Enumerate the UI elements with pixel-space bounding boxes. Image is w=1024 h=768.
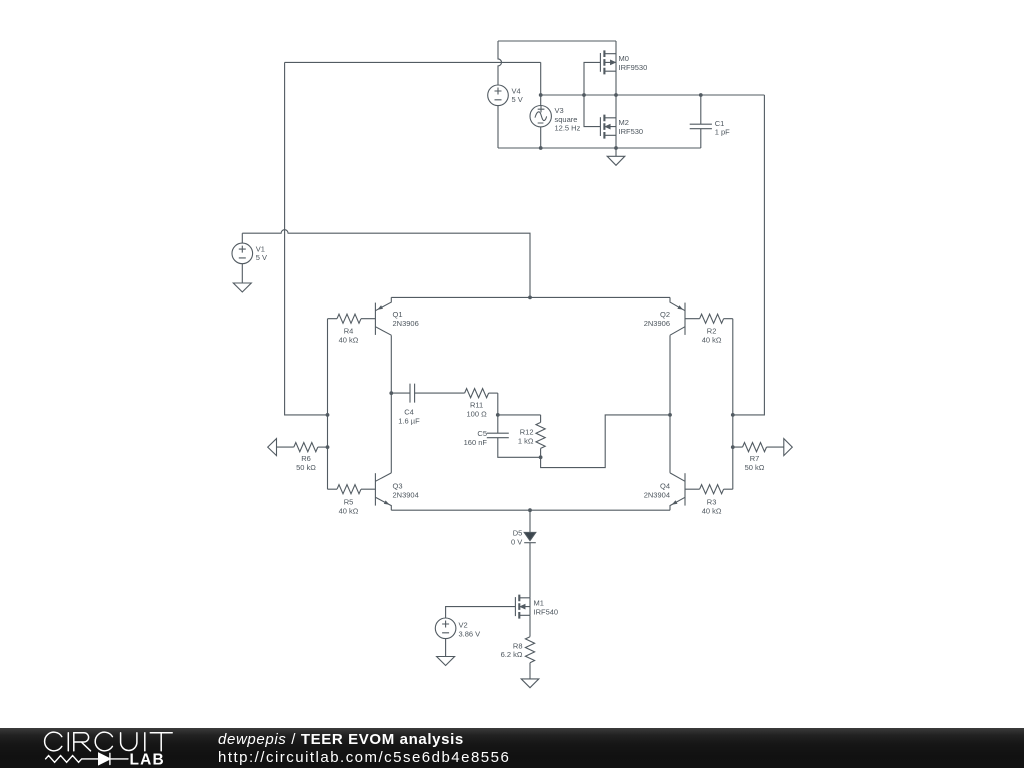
capacitor C1 (690, 95, 712, 148)
svg-text:R4: R4 (344, 327, 354, 336)
resistor R6 (294, 443, 328, 452)
svg-text:M1: M1 (534, 599, 544, 608)
svg-text:160 nF: 160 nF (464, 438, 488, 447)
svg-text:R3: R3 (707, 498, 717, 507)
capacitor C5 (487, 415, 541, 457)
logo resistor-diode strip (46, 753, 128, 764)
capacitor C4 (391, 384, 464, 403)
svg-text:50 kΩ: 50 kΩ (745, 463, 765, 472)
ground under V2 (437, 639, 455, 666)
svg-text:2N3906: 2N3906 (644, 319, 670, 328)
voltage source V4 (488, 85, 509, 106)
svg-text:R7: R7 (750, 454, 760, 463)
wire cross-couple to right collectors (541, 415, 670, 468)
wire V1 to emitter rail with hop (242, 230, 530, 298)
wire bottom emitter rail (391, 509, 670, 511)
transistor Q2 2N3906 (670, 297, 685, 335)
logo CIRCUIT (45, 732, 173, 751)
voltage source V2 (435, 618, 456, 639)
svg-text:1.6 µF: 1.6 µF (398, 416, 420, 425)
wire middle rail (541, 94, 765, 96)
resistor R12 (536, 415, 545, 457)
svg-text:R12: R12 (520, 428, 534, 437)
wire gate vertical (584, 62, 600, 126)
ground under M2 (607, 148, 625, 165)
svg-text:V1: V1 (256, 244, 265, 253)
resistor R4 (328, 314, 376, 323)
wire gate-drive horizontal (285, 61, 541, 63)
svg-text:D5: D5 (513, 529, 523, 538)
port R6 terminal (268, 439, 294, 456)
svg-text:50 kΩ: 50 kΩ (296, 463, 316, 472)
diode D5 (524, 532, 536, 542)
svg-text:C5: C5 (477, 429, 487, 438)
svg-text:6.2 kΩ: 6.2 kΩ (501, 650, 523, 659)
wire M1 gate to V2 (446, 607, 516, 618)
svg-text:R11: R11 (470, 401, 483, 410)
svg-text:R5: R5 (344, 498, 354, 507)
wire left outer rail (285, 62, 328, 415)
transistor M0 IRF9530 (600, 41, 616, 95)
svg-text:3.86 V: 3.86 V (459, 629, 481, 638)
svg-text:40 kΩ: 40 kΩ (702, 506, 722, 515)
svg-text:2N3904: 2N3904 (393, 491, 419, 500)
voltage source V3 square (530, 106, 551, 127)
wire right vertical rail (733, 95, 765, 415)
resistor R8 (525, 637, 534, 663)
wire bottom rail top section (498, 147, 701, 149)
svg-text:R6: R6 (301, 454, 311, 463)
svg-text:40 kΩ: 40 kΩ (339, 506, 359, 515)
wire V3 branch (540, 62, 542, 148)
svg-text:V3: V3 (555, 106, 564, 115)
wire R11 to node (498, 393, 541, 415)
transistor M1 IRF540 (515, 595, 530, 619)
wire V4 branch with hop (498, 41, 502, 148)
footer title (218, 731, 464, 748)
svg-text:1 kΩ: 1 kΩ (518, 436, 534, 445)
wire D5 branch (529, 510, 531, 598)
svg-text:V2: V2 (459, 621, 468, 630)
transistor Q4 2N3904 (670, 473, 685, 510)
ground under R8 (521, 663, 539, 688)
resistor R3 (685, 485, 733, 494)
svg-text:C4: C4 (404, 408, 414, 417)
svg-text:40 kΩ: 40 kΩ (702, 335, 722, 344)
svg-text:Q1: Q1 (393, 310, 403, 319)
wire Q2-Q4 collector vertical (669, 335, 671, 473)
resistor R11 (465, 389, 498, 398)
wire M1 source to R8 (529, 615, 531, 636)
resistor R5 (328, 485, 376, 494)
wire emitter rail (391, 296, 670, 298)
svg-text:12.5 Hz: 12.5 Hz (555, 124, 581, 133)
svg-text:Q3: Q3 (393, 482, 403, 491)
ground under V1 (233, 264, 251, 292)
svg-text:M0: M0 (619, 54, 629, 63)
svg-text:40 kΩ: 40 kΩ (339, 335, 359, 344)
junction dots (326, 93, 735, 512)
wire Q1-Q3 collector vertical (390, 335, 392, 473)
port R7 terminal (784, 439, 793, 456)
resistor R2 (685, 314, 733, 323)
svg-text:0 V: 0 V (511, 538, 522, 547)
svg-text:100 Ω: 100 Ω (466, 409, 487, 418)
svg-text:5 V: 5 V (512, 95, 523, 104)
svg-text:Q4: Q4 (660, 482, 670, 491)
voltage source V1 (232, 243, 253, 264)
resistor R7 (733, 443, 784, 452)
wire left inner rail (327, 319, 329, 490)
wire right inner rail (732, 319, 734, 490)
svg-text:square: square (555, 115, 578, 124)
svg-text:Q2: Q2 (660, 310, 670, 319)
svg-text:2N3906: 2N3906 (393, 319, 419, 328)
svg-text:R2: R2 (707, 327, 717, 336)
svg-text:M2: M2 (619, 118, 629, 127)
transistor Q1 2N3906 (375, 297, 391, 335)
svg-text:1 pF: 1 pF (715, 127, 730, 136)
svg-text:IRF530: IRF530 (619, 127, 644, 136)
footer url (218, 749, 510, 766)
svg-text:IRF540: IRF540 (534, 607, 559, 616)
transistor M2 IRF530 (600, 95, 616, 148)
svg-text:2N3904: 2N3904 (644, 491, 670, 500)
wire top rail (498, 40, 616, 42)
transistor Q3 2N3904 (375, 473, 391, 510)
svg-text:5 V: 5 V (256, 253, 267, 262)
svg-text:IRF9530: IRF9530 (619, 63, 648, 72)
svg-text:LAB: LAB (130, 751, 165, 768)
